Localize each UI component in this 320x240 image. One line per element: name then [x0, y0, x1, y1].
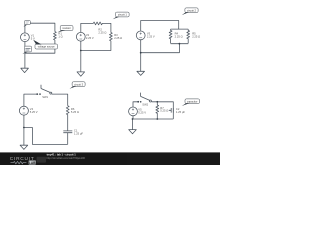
svg-text:5 V: 5 V	[31, 36, 35, 40]
resistor R1	[54, 32, 57, 40]
resistor R6	[66, 106, 69, 131]
svg-text:1 Ω: 1 Ω	[58, 35, 62, 39]
logo squiggle	[11, 161, 27, 163]
svg-text:2.25 V: 2.25 V	[86, 36, 94, 40]
junction C5 R7 top	[156, 101, 158, 103]
ground C5	[129, 130, 137, 134]
callout capacitor	[182, 99, 200, 106]
callouts	[22, 8, 199, 106]
ground C1	[21, 68, 29, 72]
component labels	[30, 28, 200, 136]
svg-text:circuit 2: circuit 2	[187, 8, 196, 12]
wire C1 top	[25, 23, 55, 33]
svg-text:SW2: SW2	[142, 103, 148, 107]
ground C3	[137, 71, 145, 75]
voltage source V5	[129, 107, 138, 116]
capacitor C2	[169, 108, 174, 113]
svg-text:2.25 V: 2.25 V	[147, 35, 155, 39]
resistor R5	[187, 29, 190, 43]
svg-text:LAB: LAB	[29, 161, 36, 165]
svg-text:1.25 µF: 1.25 µF	[74, 131, 84, 135]
voltage source V4	[19, 106, 28, 115]
callout tiny B	[22, 46, 31, 54]
svg-text:2.25 Ω: 2.25 Ω	[175, 35, 183, 39]
callout circuit 1	[113, 12, 129, 19]
svg-text:5.25 Ω: 5.25 Ω	[71, 110, 79, 114]
junction C4	[23, 127, 25, 129]
resistor R2	[93, 22, 111, 33]
callout circuit 2	[182, 8, 198, 15]
svg-text:voltage source: voltage source	[38, 45, 55, 49]
svg-text:2.25 Ω: 2.25 Ω	[114, 36, 122, 40]
callout circuit 3	[70, 82, 86, 89]
junction C5 R7 bottom	[156, 118, 158, 120]
junction C2	[80, 50, 82, 52]
wire C2 bottom	[81, 41, 111, 72]
switch SW1	[41, 85, 68, 106]
wire C4 top	[24, 94, 37, 106]
voltage source V3	[136, 31, 145, 40]
svg-text:resistor: resistor	[62, 26, 71, 30]
wire C3 top	[141, 21, 189, 31]
footer gray box	[37, 157, 46, 163]
svg-text:circuit 1: circuit 1	[118, 13, 127, 17]
svg-text:2.25 Ω: 2.25 Ω	[192, 35, 200, 39]
svg-text:2.25 Ω: 2.25 Ω	[98, 30, 106, 34]
svg-text:tmp41 : lab 1 - circuit 1: tmp41 : lab 1 - circuit 1	[47, 152, 77, 156]
ground C4	[20, 145, 28, 149]
svg-text:circuit 3: circuit 3	[74, 82, 83, 86]
voltage source V1	[21, 33, 30, 42]
resistor R4	[169, 29, 172, 43]
svg-text:5.25 V: 5.25 V	[138, 111, 146, 115]
wire C3 bottom	[141, 40, 189, 71]
wire C2 top	[81, 23, 94, 32]
resistor R3	[110, 33, 113, 41]
svg-text:1.25 µF: 1.25 µF	[176, 110, 186, 114]
voltage source V2	[76, 32, 85, 41]
svg-text:5.25 V: 5.25 V	[30, 110, 38, 114]
footer bar	[0, 152, 220, 165]
logo LAB chip	[29, 161, 36, 165]
svg-text:SW1: SW1	[42, 95, 48, 99]
switch SW2	[141, 93, 174, 119]
resistor R7	[156, 102, 159, 119]
svg-text:5.25 Ω: 5.25 Ω	[160, 109, 168, 113]
wire C5 top	[133, 102, 138, 107]
callout voltage source	[33, 40, 57, 49]
junction C5 left	[132, 118, 134, 120]
wire C1 bottom	[25, 40, 55, 68]
callout tiny A	[24, 20, 31, 26]
wire C4 bottom	[24, 115, 68, 145]
wire C5 bottom	[133, 116, 174, 130]
callout resistor	[58, 26, 74, 33]
junction C3 stem	[179, 43, 181, 45]
junction C3 bottom	[140, 52, 142, 54]
svg-text:http://circuitlab.com/cabf736j: http://circuitlab.com/cabf736jwu6bf	[47, 157, 86, 160]
svg-text:capacitor: capacitor	[187, 99, 198, 103]
capacitor C1	[63, 131, 72, 145]
ground C2	[77, 72, 85, 76]
